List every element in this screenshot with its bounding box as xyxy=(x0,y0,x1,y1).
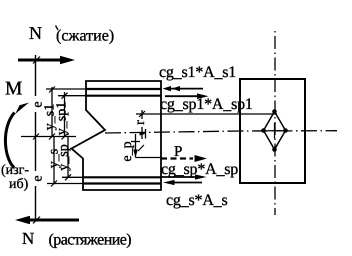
svg-text:cg_s1*A_s1: cg_s1*A_s1 xyxy=(159,64,236,81)
svg-text:(растяжение): (растяжение) xyxy=(49,232,132,249)
svg-text:M: M xyxy=(5,79,22,100)
svg-text:e_p: e_p xyxy=(120,141,135,161)
svg-text:cg_sp*A_sp: cg_sp*A_sp xyxy=(161,161,238,178)
svg-text:cg_sp1*A_sp1: cg_sp1*A_sp1 xyxy=(160,96,253,113)
svg-text:y_sp: y_sp xyxy=(57,144,72,170)
svg-text:(изг-: (изг- xyxy=(1,163,29,178)
svg-text:(сжатие): (сжатие) xyxy=(56,28,114,45)
svg-text:N: N xyxy=(29,23,42,43)
svg-text:иб): иб) xyxy=(9,177,29,192)
svg-text:r: r xyxy=(133,120,148,125)
svg-text:y_sp1: y_sp1 xyxy=(55,102,70,135)
svg-text:cg_s*A_s: cg_s*A_s xyxy=(166,192,228,209)
svg-text:e: e xyxy=(30,175,45,181)
svg-text:N: N xyxy=(22,229,34,248)
svg-text:P: P xyxy=(174,144,182,160)
